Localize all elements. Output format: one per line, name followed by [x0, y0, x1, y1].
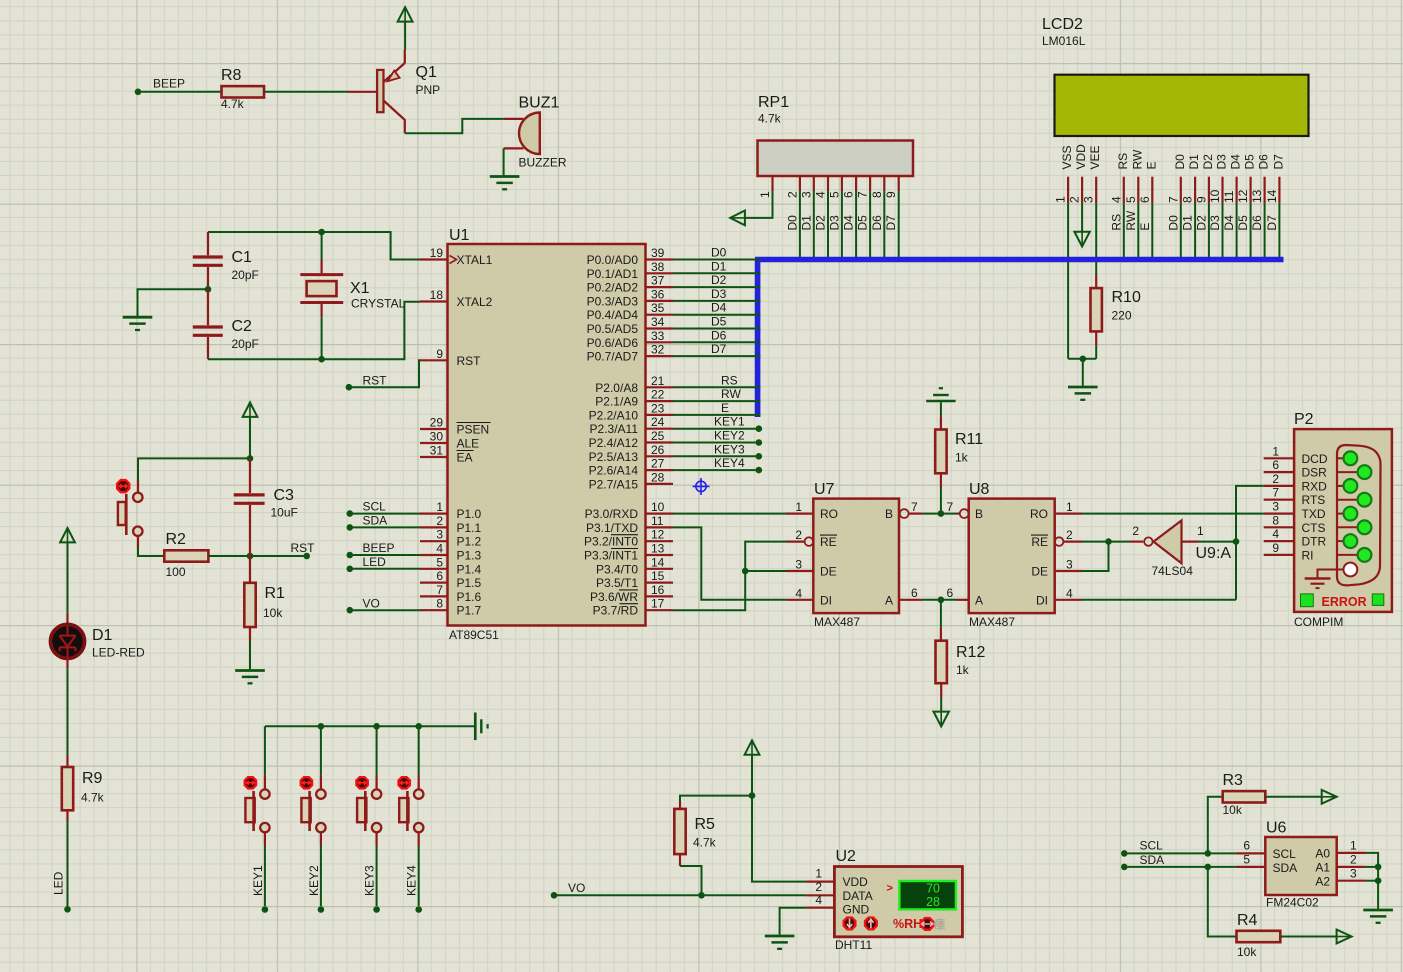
svg-text:34: 34	[651, 315, 665, 329]
svg-text:6: 6	[1272, 458, 1279, 472]
pin 13 P3.3/INT1 of U1	[646, 554, 674, 556]
pin 6 of RP1 wire to bus	[855, 176, 857, 191]
svg-text:U2: U2	[836, 848, 857, 865]
svg-text:U6: U6	[1266, 820, 1287, 837]
svg-text:FM24C02: FM24C02	[1266, 896, 1319, 910]
svg-text:29: 29	[430, 416, 444, 430]
DB9 contact TXD of P2	[1336, 513, 1344, 515]
svg-text:P1.5: P1.5	[457, 576, 482, 590]
wire KEY2 from U1	[673, 442, 756, 444]
junction dot SDA R4	[1205, 864, 1212, 871]
svg-text:23: 23	[651, 401, 665, 415]
svg-text:10uF: 10uF	[271, 506, 298, 520]
svg-text:P1.7: P1.7	[457, 604, 482, 618]
svg-text:P2.5/A13: P2.5/A13	[589, 450, 639, 464]
junction dot B row	[938, 510, 945, 517]
ground below U6	[1363, 909, 1393, 912]
button KEY2 actuator	[301, 777, 312, 788]
node SCL terminal dot	[1121, 850, 1128, 857]
power terminal VCC above C3	[243, 403, 258, 417]
svg-text:D7: D7	[711, 342, 727, 356]
svg-text:A: A	[975, 593, 983, 607]
pin 2 DATA of U2	[806, 894, 834, 896]
pin 7 P1.6 of U1	[420, 595, 448, 597]
wire VO to U1 P1.7	[353, 609, 420, 611]
svg-text:MAX487: MAX487	[814, 615, 860, 629]
ground below DHT11	[765, 935, 795, 938]
capacitor C1	[207, 232, 209, 255]
DB9 contact CTS of P2	[1336, 526, 1358, 528]
junction dot VSS-VEE ground	[1080, 356, 1087, 363]
wire RW from U1 to bus	[673, 400, 761, 402]
pin 24 P2.3/A11 of U1	[646, 428, 674, 430]
svg-text:KEY1: KEY1	[714, 415, 745, 429]
pin stub BUZ1 top	[504, 118, 524, 120]
svg-text:C2: C2	[232, 318, 253, 335]
svg-text:RI: RI	[1302, 548, 1314, 562]
svg-text:LED: LED	[363, 555, 387, 569]
svg-text:1k: 1k	[956, 663, 970, 677]
node KEY3 terminal dot	[756, 453, 763, 460]
pin 4 of RP1 wire to bus	[827, 176, 829, 191]
wire KEY1 riser	[264, 726, 266, 775]
wire LCD2 pin to bus	[1151, 203, 1153, 257]
svg-text:P1.3: P1.3	[457, 549, 482, 563]
svg-text:38: 38	[651, 260, 665, 274]
DB9 contact RTS of P2	[1336, 499, 1358, 501]
svg-text:DE: DE	[820, 565, 837, 579]
transceiver U8 MAX487 body	[969, 499, 1055, 613]
ground symbol inside P2	[1318, 570, 1344, 578]
wire to ground below LCD	[1082, 359, 1084, 386]
svg-text:CTS: CTS	[1302, 521, 1326, 535]
svg-text:PSEN: PSEN	[457, 423, 490, 437]
inverter U9:A 74LS04	[1154, 521, 1182, 564]
svg-text:5: 5	[1124, 196, 1138, 203]
pin 2 of U6	[1337, 866, 1366, 868]
pin 19 XTAL1 of U1	[420, 258, 448, 260]
pin 12 P3.2/INT0 of U1	[646, 540, 674, 542]
svg-text:D5: D5	[711, 315, 727, 329]
wire D1 from U1 to bus	[673, 272, 761, 274]
wire SCL to U6	[1128, 852, 1237, 854]
pin 1 P1.0 of U1	[420, 512, 448, 514]
wire U2 GND to ground	[780, 908, 807, 935]
svg-text:2: 2	[795, 528, 802, 542]
svg-text:D0: D0	[1166, 215, 1180, 231]
pin 2 P1.1 of U1	[420, 526, 448, 528]
pin 2 RE of U8	[1055, 537, 1064, 546]
svg-text:220: 220	[1112, 309, 1132, 323]
svg-text:1: 1	[1054, 196, 1068, 203]
buzzer BUZ1	[519, 113, 540, 155]
wire LCD2 pin to bus	[1222, 203, 1224, 257]
svg-text:RS: RS	[721, 373, 738, 387]
node KEY4 terminal dot	[756, 467, 763, 474]
svg-text:COMPIM: COMPIM	[1294, 615, 1343, 629]
svg-text:D2: D2	[711, 273, 727, 287]
wire KEY2 to node	[320, 832, 322, 846]
svg-text:VEE: VEE	[1088, 145, 1102, 169]
svg-text:D3: D3	[1208, 215, 1222, 231]
svg-text:6: 6	[911, 586, 918, 600]
capacitor C3	[249, 458, 251, 493]
pin 7 bubble of U8	[960, 509, 969, 518]
power terminal left of RP1	[730, 211, 745, 226]
svg-text:R3: R3	[1223, 772, 1244, 789]
DB9 contact DTR of P2	[1336, 540, 1344, 542]
svg-text:A: A	[885, 593, 893, 607]
svg-text:15: 15	[651, 569, 665, 583]
wire bottom XTAL2 net	[208, 302, 420, 359]
pin 15 P3.5/T1 of U1	[646, 581, 674, 583]
svg-text:7: 7	[856, 191, 870, 198]
svg-text:P2.0/A8: P2.0/A8	[595, 381, 638, 395]
svg-text:4.7k: 4.7k	[81, 791, 105, 805]
node KEY2 terminal dot	[318, 906, 325, 913]
svg-text:P3.6/WR: P3.6/WR	[590, 590, 638, 604]
wire KEY1 to node	[264, 832, 266, 846]
svg-text:P0.0/AD0: P0.0/AD0	[587, 253, 639, 267]
svg-text:%RH: %RH	[893, 917, 922, 931]
svg-text:P2.3/A11: P2.3/A11	[590, 422, 639, 436]
junction dot inverter input node	[1233, 538, 1240, 545]
svg-text:70: 70	[926, 882, 940, 896]
svg-text:37: 37	[651, 274, 665, 288]
junction dot VCC R5	[749, 792, 756, 799]
wire LCD2 pin to bus	[1236, 203, 1238, 257]
wire LCD2 pin to bus	[1278, 203, 1280, 257]
svg-text:A0: A0	[1315, 847, 1330, 861]
resistor R5	[679, 802, 681, 809]
svg-text:LCD2: LCD2	[1042, 16, 1083, 33]
svg-text:17: 17	[651, 597, 665, 611]
pin 14 P3.4/T0 of U1	[646, 568, 674, 570]
svg-text:8: 8	[870, 191, 884, 198]
svg-text:36: 36	[651, 287, 665, 301]
svg-text:2: 2	[1068, 196, 1082, 203]
svg-text:D2: D2	[1201, 154, 1215, 170]
svg-text:RP1: RP1	[758, 94, 789, 111]
wire LCD2 pin to bus	[1180, 203, 1182, 257]
svg-text:VSS: VSS	[1060, 145, 1074, 169]
node SDA terminal dot left	[347, 524, 354, 531]
svg-text:11: 11	[1222, 190, 1236, 203]
sensor U2 DHT11 body	[834, 867, 962, 937]
svg-text:VDD: VDD	[1074, 144, 1088, 170]
svg-text:ERROR: ERROR	[1322, 595, 1367, 609]
svg-text:5: 5	[1243, 853, 1250, 867]
svg-text:E: E	[1144, 161, 1158, 169]
resistor R3	[1223, 791, 1266, 802]
svg-text:19: 19	[430, 246, 444, 260]
svg-text:2: 2	[1272, 472, 1279, 486]
svg-text:R2: R2	[166, 531, 187, 548]
svg-text:35: 35	[651, 301, 665, 315]
wire KEY3 from U1	[673, 455, 756, 457]
wire D5 from U1 to bus	[673, 328, 761, 330]
svg-text:20pF: 20pF	[232, 337, 259, 351]
svg-text:12: 12	[651, 528, 665, 542]
svg-text:U1: U1	[449, 227, 470, 244]
wire D2 from U1 to bus	[673, 286, 761, 288]
svg-text:3: 3	[1272, 500, 1279, 514]
svg-text:R11: R11	[955, 431, 983, 448]
svg-text:2: 2	[785, 191, 799, 198]
svg-text:31: 31	[430, 444, 444, 458]
pin 36 P0.3/AD3 of U1	[646, 300, 674, 302]
svg-text:D1: D1	[1187, 154, 1201, 170]
svg-text:1k: 1k	[955, 451, 969, 465]
pin 32 P0.7/AD7 of U1	[646, 355, 674, 357]
svg-text:P3.3/INT1: P3.3/INT1	[584, 549, 638, 563]
pin 9 RI of P2	[1264, 554, 1294, 556]
svg-text:ALE: ALE	[457, 437, 480, 451]
svg-text:TXD: TXD	[1302, 507, 1326, 521]
svg-text:E: E	[1138, 223, 1152, 231]
svg-text:SCL: SCL	[1273, 847, 1297, 861]
svg-text:4: 4	[815, 893, 822, 907]
svg-text:4.7k: 4.7k	[758, 112, 782, 126]
svg-text:30: 30	[430, 430, 444, 444]
wire VCC to U2 VDD	[752, 796, 806, 882]
pin 3 P1.2 of U1	[420, 540, 448, 542]
svg-text:D3: D3	[1215, 154, 1229, 170]
svg-text:D0: D0	[1173, 154, 1187, 170]
wire junction to U7 DE	[745, 570, 786, 572]
wire LCD2 pin to bus	[1137, 203, 1139, 257]
svg-text:E: E	[721, 401, 729, 415]
svg-text:1: 1	[1350, 839, 1357, 853]
junction dot keys rail	[318, 723, 325, 730]
svg-text:1: 1	[1066, 500, 1073, 514]
wire U8 RE to inverter output	[1082, 541, 1130, 543]
LCD display LCD2 screen	[1055, 75, 1309, 136]
svg-text:RW: RW	[1124, 210, 1138, 230]
svg-text:7: 7	[1166, 196, 1180, 203]
svg-text:P2.2/A10: P2.2/A10	[589, 408, 639, 422]
reset button actuator	[117, 480, 129, 492]
wire LED to U1 P1.4	[353, 568, 420, 570]
wire VO to U2 DATA	[557, 894, 806, 896]
wire RST node to RST label	[250, 555, 304, 557]
svg-text:P0.6/AD6: P0.6/AD6	[587, 336, 639, 350]
wire U8 DI to node	[1082, 599, 1237, 601]
svg-text:D1: D1	[92, 627, 113, 644]
svg-text:3: 3	[1350, 866, 1357, 880]
junction at X1 bottom	[318, 356, 325, 363]
svg-text:D5: D5	[1236, 215, 1250, 231]
svg-text:DSR: DSR	[1302, 466, 1328, 480]
svg-text:Q1: Q1	[416, 64, 437, 81]
wire KEY2 riser	[320, 726, 322, 775]
wire reset button to R2	[137, 536, 139, 547]
svg-text:R10: R10	[1112, 289, 1141, 306]
wire LCD2 VSS to ground	[1067, 203, 1069, 359]
pin 2 RE of U7	[787, 540, 805, 542]
svg-text:KEY2: KEY2	[714, 429, 745, 443]
bus LCD data horizontal	[755, 257, 1284, 263]
junction dot A row	[938, 597, 945, 604]
svg-text:P2.6/A14: P2.6/A14	[589, 464, 639, 478]
pin 4 DI of U8	[1055, 599, 1082, 601]
pin stub Q1 base	[348, 91, 377, 93]
svg-text:D0: D0	[711, 246, 727, 260]
svg-text:4.7k: 4.7k	[221, 97, 245, 111]
pin 28 P2.7/A15 of U1	[646, 483, 674, 485]
svg-text:D7: D7	[1271, 154, 1285, 170]
svg-text:D7: D7	[884, 215, 898, 231]
wire U7.A to U8.A	[899, 599, 922, 601]
svg-text:SDA: SDA	[1273, 861, 1298, 875]
svg-text:D3: D3	[711, 287, 727, 301]
transceiver U7 MAX487 body	[813, 499, 899, 613]
svg-text:X1: X1	[350, 280, 370, 297]
node SDA terminal dot	[1121, 864, 1128, 871]
svg-text:D6: D6	[711, 328, 727, 342]
wire junction to R5 top	[680, 796, 752, 802]
pin 3 of U6	[1337, 880, 1366, 882]
svg-text:27: 27	[651, 457, 665, 471]
button KEY3	[376, 776, 378, 790]
resistor R10	[1095, 275, 1097, 289]
svg-text:3: 3	[1066, 558, 1073, 572]
node LED terminal dot left	[347, 566, 354, 573]
svg-text:2: 2	[1132, 524, 1139, 538]
svg-text:VDD: VDD	[843, 875, 869, 889]
svg-text:3: 3	[436, 528, 443, 542]
node KEY1 terminal dot	[756, 425, 763, 432]
power terminal below R12	[934, 712, 949, 727]
wire VCC to C3 junction	[249, 417, 251, 458]
svg-text:D6: D6	[1257, 154, 1271, 170]
wire E from U1 to bus	[673, 414, 761, 416]
junction dot RST node	[247, 553, 254, 560]
pin 26 P2.5/A13 of U1	[646, 455, 674, 457]
svg-text:KEY4: KEY4	[714, 456, 745, 470]
svg-text:LED: LED	[52, 871, 66, 895]
pin 4 P1.3 of U1	[420, 554, 448, 556]
node KEY2 terminal dot	[756, 439, 763, 446]
resistor R12	[940, 628, 942, 641]
svg-text:LM016L: LM016L	[1042, 34, 1086, 48]
svg-text:RXD: RXD	[1302, 479, 1328, 493]
svg-text:7: 7	[911, 500, 918, 514]
pin stub Q1 emitter	[404, 50, 406, 64]
wire KEY3 to node	[376, 832, 378, 846]
pin 23 P2.2/A10 of U1	[646, 414, 674, 416]
svg-text:14: 14	[651, 555, 665, 569]
button KEY4	[418, 776, 420, 790]
pin 2 of RP1 wire to bus	[799, 176, 801, 191]
junction dot SCL R3	[1205, 850, 1212, 857]
junction dot U7 DE	[742, 568, 749, 575]
svg-text:RO: RO	[1030, 507, 1048, 521]
junction dot U8 RE/DE	[1105, 538, 1112, 545]
svg-text:DATA: DATA	[843, 889, 873, 903]
svg-text:12: 12	[1236, 189, 1250, 203]
svg-text:R9: R9	[82, 770, 103, 787]
wire junction down to U8 DE	[1082, 542, 1109, 571]
svg-text:22: 22	[651, 388, 665, 402]
resistor R9	[66, 756, 68, 767]
svg-text:1: 1	[815, 867, 822, 881]
svg-text:D2: D2	[814, 215, 828, 231]
svg-text:AT89C51: AT89C51	[449, 628, 499, 642]
svg-text:BUZ1: BUZ1	[519, 95, 560, 112]
pin 11 P3.1/TXD of U1	[646, 526, 674, 528]
wire R9 to LED node	[67, 821, 69, 906]
pin 7 of RP1 wire to bus	[869, 176, 871, 191]
junction dot keys rail	[373, 723, 380, 730]
svg-text:RST: RST	[457, 354, 482, 368]
svg-text:8: 8	[1181, 196, 1195, 203]
pin 5 P1.4 of U1	[420, 568, 448, 570]
wire to ground left	[138, 289, 209, 316]
pin 4 DI of U7	[787, 599, 814, 601]
DB9 shell contact of P2	[1336, 569, 1344, 571]
svg-text:P3.4/T0: P3.4/T0	[596, 562, 638, 576]
pin 3 DE of U8	[1055, 570, 1082, 572]
pin 9 of RP1 wire to bus	[898, 176, 900, 191]
ground below BUZ1	[490, 175, 520, 178]
pin 2 bubble of U9:A	[1144, 537, 1152, 545]
pin 31 EA of U1	[420, 456, 448, 458]
svg-text:P1.2: P1.2	[457, 535, 482, 549]
pin 38 P0.1/AD1 of U1	[646, 272, 674, 274]
ERROR indicator right square of P2	[1372, 594, 1384, 606]
pin 1 RO of U7	[787, 512, 814, 514]
junction at X1 top	[318, 229, 325, 236]
svg-text:28: 28	[651, 470, 665, 484]
wire D0 from U1 to bus	[673, 259, 761, 261]
svg-text:RE: RE	[820, 535, 837, 549]
transistor Q1	[377, 70, 383, 112]
wire ground to R11	[940, 402, 942, 416]
svg-text:RTS: RTS	[1302, 493, 1326, 507]
svg-text:13: 13	[651, 542, 665, 556]
power terminal VCC above DHT11	[745, 740, 760, 754]
svg-text:26: 26	[651, 443, 665, 457]
svg-text:D2: D2	[1194, 215, 1208, 231]
pin 7 bubble of U7	[900, 509, 909, 518]
svg-text:7: 7	[947, 500, 954, 514]
svg-text:PNP: PNP	[416, 83, 441, 97]
wire R4 left leg	[1208, 867, 1237, 937]
wire keys common rail	[265, 725, 475, 727]
svg-text:25: 25	[651, 429, 665, 443]
DHT11 up button icon	[865, 918, 877, 930]
node SCL terminal dot left	[347, 510, 354, 517]
pin 6 SCL of U6	[1237, 852, 1266, 854]
svg-text:P3.5/T1: P3.5/T1	[596, 576, 638, 590]
svg-text:P0.4/AD4: P0.4/AD4	[587, 308, 639, 322]
pin 1 of U6	[1337, 852, 1366, 854]
pin 9 RST of U1	[420, 359, 448, 361]
wire U6 address pins to ground	[1365, 853, 1378, 909]
svg-text:KEY4: KEY4	[405, 865, 419, 896]
wire KEY3 riser	[376, 726, 378, 775]
DHT11 display of U2	[899, 881, 956, 909]
wire KEY4 to node	[418, 832, 420, 846]
svg-text:P3.1/TXD: P3.1/TXD	[586, 521, 638, 535]
DB9 connector outline of P2	[1337, 445, 1381, 585]
wire U8 RO to P2 TXD	[1082, 513, 1264, 515]
capacitor C2	[207, 289, 209, 325]
wire VCC down to junction	[751, 755, 753, 796]
svg-text:D1: D1	[1181, 215, 1195, 231]
svg-text:21: 21	[651, 374, 665, 388]
